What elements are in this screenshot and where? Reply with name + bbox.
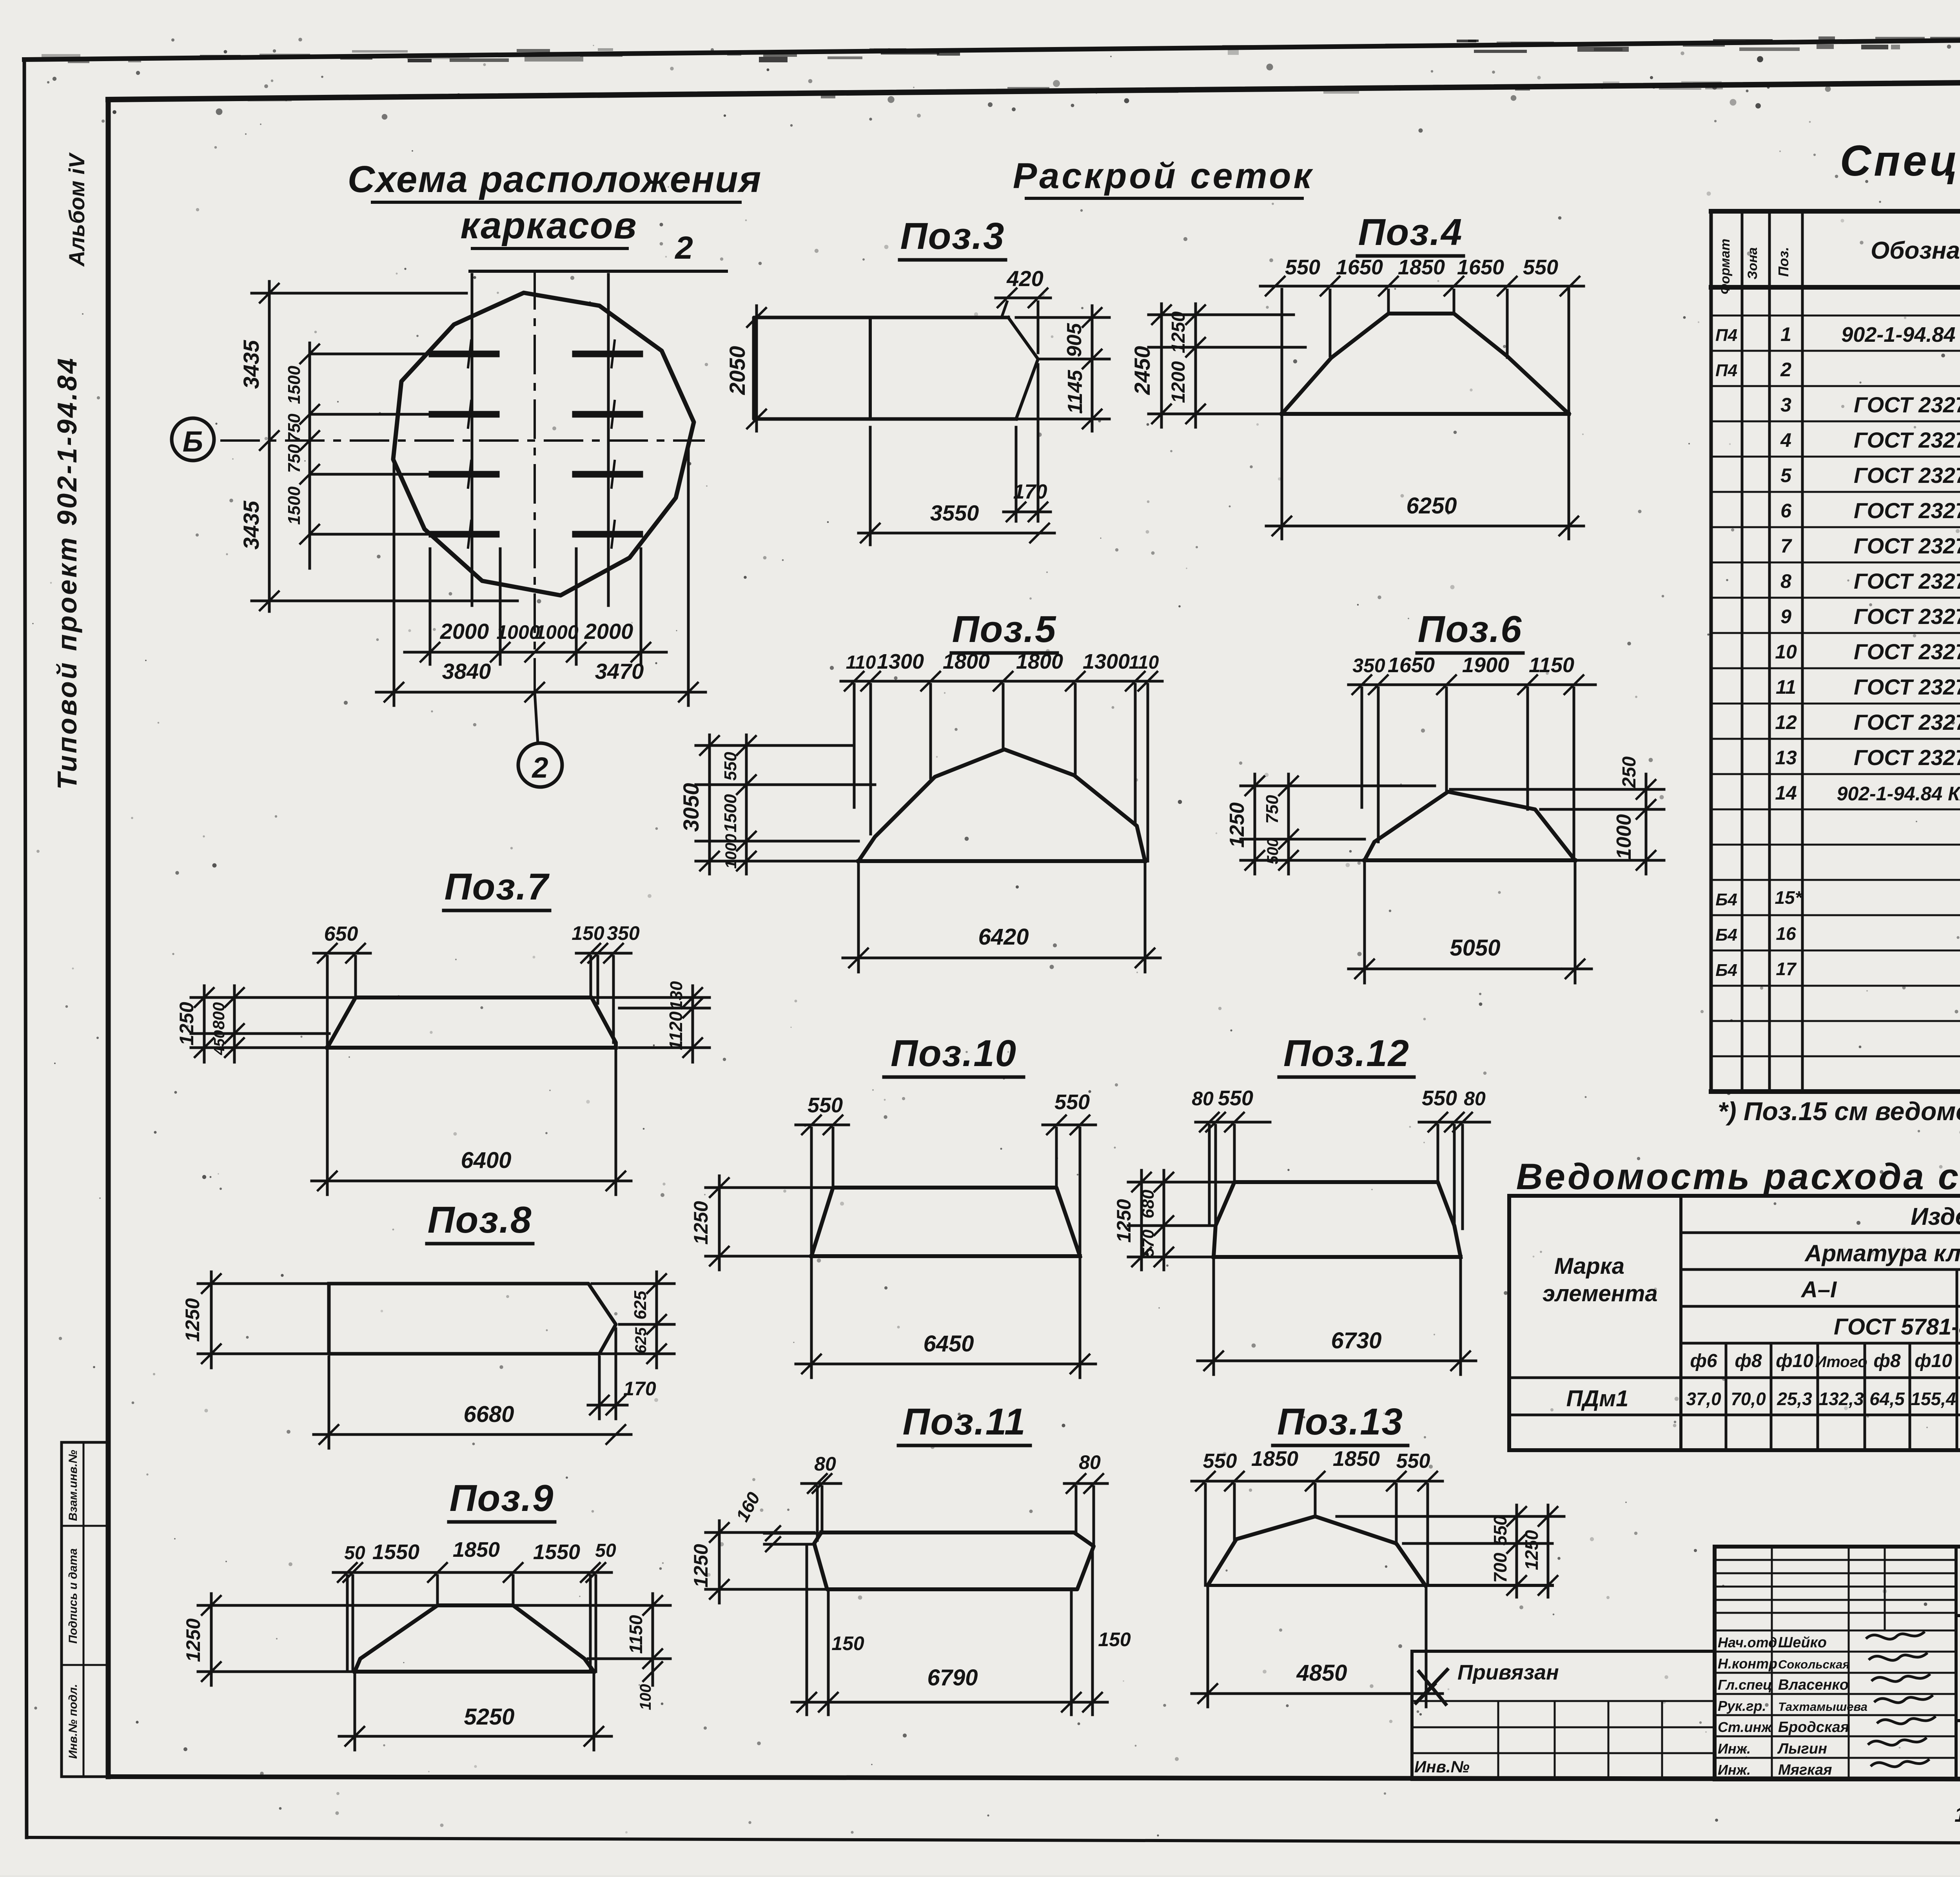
svg-text:10: 10 [1775,641,1797,663]
svg-text:37,0: 37,0 [1686,1389,1721,1409]
svg-text:1250: 1250 [1113,1199,1135,1242]
svg-text:элемента: элемента [1543,1281,1658,1306]
svg-text:Марка: Марка [1554,1253,1624,1279]
svg-text:Поз.13: Поз.13 [1277,1401,1403,1443]
svg-text:9: 9 [1780,606,1791,627]
svg-text:Ст.инж: Ст.инж [1718,1719,1773,1735]
svg-text:1200: 1200 [1168,361,1189,403]
Поз.6 left dims 1250, 750/500 [1254,774,1256,874]
svg-text:3470: 3470 [595,659,644,684]
rebar marks (8) [432,351,496,357]
svg-text:625: 625 [631,1291,650,1320]
Поз.3 dim 170 [1015,427,1018,521]
svg-text:6250: 6250 [1406,493,1457,519]
svg-text:1850: 1850 [453,1538,500,1561]
svg-text:Инж.: Инж. [1718,1741,1751,1757]
svg-text:1250: 1250 [690,1544,712,1587]
svg-text:Поз.10: Поз.10 [891,1032,1017,1074]
svg-text:Поз.6: Поз.6 [1418,608,1523,650]
Поз.3 dim 420 [996,297,1051,299]
Поз.9 plate outline [355,1605,594,1672]
svg-text:1300: 1300 [877,650,924,673]
svg-text:ф8: ф8 [1735,1351,1762,1371]
svg-text:2: 2 [531,751,548,784]
axis 2 top bar [470,270,726,273]
axis bubble 2 (bottom) [518,743,562,787]
Поз.12 top dims 80 550 / 550 80 [1196,1121,1270,1124]
svg-text:550: 550 [1396,1450,1430,1473]
svg-text:1800: 1800 [1016,650,1063,673]
Поз.13 bottom dim 4850 [1192,1692,1443,1695]
svg-text:1150: 1150 [626,1615,646,1654]
svg-text:450: 450 [211,1030,228,1055]
svg-text:550: 550 [1422,1086,1457,1110]
svg-text:1000: 1000 [722,834,740,869]
svg-text:350: 350 [607,922,640,944]
Поз.12 left dims 1250, 680/570 [1140,1170,1143,1270]
svg-text:150: 150 [831,1632,864,1654]
svg-text:Альбом iV: Альбом iV [64,152,89,267]
Поз.6 right dims 250/1000 [1645,774,1648,874]
svg-text:170: 170 [623,1378,656,1400]
scheme bottom dims 3840/3470 [376,691,706,694]
svg-text:8: 8 [1780,570,1791,592]
svg-text:1150: 1150 [1529,653,1574,677]
Поз.5 bottom dim 6420 [843,957,1160,959]
svg-text:Власенко: Власенко [1778,1677,1849,1693]
svg-text:1000: 1000 [1613,814,1635,860]
Поз.6 mesh outline [1365,792,1575,860]
svg-text:5250: 5250 [464,1704,514,1730]
svg-text:Б4: Б4 [1715,961,1737,980]
Поз.8 right dims 625/625 [655,1272,658,1368]
svg-text:Раскрой сеток: Раскрой сеток [1013,156,1314,196]
svg-text:Обозначение: Обозначение [1871,237,1960,264]
svg-text:П4: П4 [1715,326,1737,345]
svg-text:ГОСТ 23279-78: ГОСТ 23279-78 [1854,392,1960,417]
svg-text:12: 12 [1775,711,1797,733]
svg-text:19978-01: 19978-01 [1955,1803,1960,1826]
Поз.13 top dims 550/1850/1850/550 [1192,1480,1443,1483]
svg-text:Рук.гр.: Рук.гр. [1718,1698,1766,1714]
svg-text:1250: 1250 [181,1298,203,1342]
Поз.6 bottom dim 5050 [1348,968,1592,970]
Поз.7 top dims 650 / 150 350 [314,952,370,955]
svg-text:80: 80 [1464,1088,1486,1110]
svg-text:1550: 1550 [533,1540,580,1564]
Поз.8 dim 170 [598,1357,601,1419]
svg-text:155,4: 155,4 [1911,1389,1956,1409]
svg-text:16: 16 [1776,923,1796,944]
Поз.3 dim 2050 (left) [755,306,758,431]
Поз.6 top dims 350/1650/1900/1150 [1348,684,1595,686]
svg-text:570: 570 [1139,1230,1157,1257]
svg-text:905: 905 [1063,323,1086,357]
Поз.8 bottom dim 6680 [314,1433,631,1436]
svg-text:2: 2 [1780,359,1791,381]
svg-text:550: 550 [1490,1515,1510,1545]
Поз.10 plate outline [811,1188,1080,1256]
Поз.9 left dim 1250 [210,1594,213,1685]
svg-text:ф8: ф8 [1873,1351,1900,1371]
svg-text:2050: 2050 [725,346,750,395]
svg-text:7: 7 [1780,535,1792,557]
svg-text:1500: 1500 [285,366,304,404]
svg-text:1250: 1250 [176,1002,198,1045]
svg-text:80: 80 [1192,1088,1214,1110]
svg-text:Поз.4: Поз.4 [1358,211,1463,253]
svg-text:Подпись и дата: Подпись и дата [67,1548,80,1643]
Поз.5 extension verticals [853,684,856,807]
Поз.4 top dims 550/1650/1850/1650/550 [1260,285,1584,288]
svg-text:1000: 1000 [496,621,540,643]
svg-text:750: 750 [285,413,304,443]
svg-text:ГОСТ 23279-78: ГОСТ 23279-78 [1854,710,1960,734]
Поз.3 mesh sheet outline [754,317,1016,419]
svg-text:110: 110 [1129,652,1159,673]
svg-text:Привязан: Привязан [1457,1661,1559,1684]
Поз.9 extension verticals [346,1576,349,1672]
svg-text:ГОСТ 23279-78: ГОСТ 23279-78 [1854,498,1960,523]
Поз.13 right dims 550/700, 1250 [1337,1515,1564,1518]
svg-text:Нач.отд: Нач.отд [1718,1634,1777,1650]
title block frame [1715,1545,1960,1549]
svg-text:Поз.3: Поз.3 [900,215,1005,257]
svg-text:3: 3 [1780,394,1791,416]
svg-text:Инв.№: Инв.№ [1414,1757,1470,1776]
svg-text:902-1-94.84 КЖИ-КР1: 902-1-94.84 КЖИ-КР1 [1841,323,1960,346]
svg-text:700: 700 [1490,1552,1510,1583]
svg-text:2450: 2450 [1130,346,1154,395]
svg-text:Б: Б [183,425,203,458]
svg-text:250: 250 [1619,756,1640,788]
pencil cross mark [1416,1670,1447,1703]
Привязан box [1412,1650,1715,1653]
svg-text:6680: 6680 [463,1402,514,1427]
svg-text:ГОСТ 5781-82: ГОСТ 5781-82 [1834,1314,1960,1340]
Поз.7 bottom dim 6400 [312,1180,631,1182]
Поз.11 bottom dims 150 / 6790 / 150 [806,1546,808,1715]
svg-text:Лыгин: Лыгин [1777,1741,1827,1757]
svg-text:Сокольская: Сокольская [1778,1658,1850,1671]
svg-text:170: 170 [1013,481,1047,503]
svg-text:Поз.5: Поз.5 [952,608,1057,650]
svg-text:6420: 6420 [978,924,1029,950]
svg-text:680: 680 [1138,1190,1158,1219]
svg-text:15*: 15* [1775,887,1802,908]
svg-text:Изделия арматурные: Изделия арматурные [1911,1203,1960,1230]
svg-text:ГОСТ 23279-78: ГОСТ 23279-78 [1854,533,1960,558]
frame verticals through rebar marks [471,274,474,606]
svg-text:550: 550 [1285,256,1320,279]
inner working frame [108,78,1960,100]
svg-text:1550: 1550 [372,1540,419,1564]
svg-text:ПДм1: ПДм1 [1566,1386,1629,1411]
Поз.3 dims 905/1145 (right) [1091,306,1094,431]
svg-text:ГОСТ 23279-78: ГОСТ 23279-78 [1854,745,1960,770]
svg-text:3550: 3550 [930,501,979,525]
svg-text:17: 17 [1776,959,1797,979]
Поз.9 top dims 50/1550/1850/1550/50 [333,1571,612,1574]
svg-text:1145: 1145 [1064,370,1087,414]
svg-text:1250: 1250 [690,1201,712,1244]
Поз.11 top dims 80 / 80 [802,1482,841,1485]
scan smudges along top edge [1577,47,1629,52]
svg-text:Поз.12: Поз.12 [1283,1032,1410,1074]
svg-text:А–I: А–I [1800,1277,1837,1302]
svg-text:5: 5 [1780,464,1792,486]
svg-text:Мягкая: Мягкая [1778,1762,1832,1778]
Поз.13 plate outline (peaked) [1208,1516,1425,1585]
svg-text:1650: 1650 [1457,256,1504,279]
svg-text:Ведомость расхода стали на оди: Ведомость расхода стали на один элемент,… [1516,1156,1960,1197]
svg-text:Поз.: Поз. [1775,247,1791,277]
left margin bottom table (Инв / Подпись / Взам) [62,1441,109,1444]
svg-text:Б4: Б4 [1715,890,1737,909]
svg-text:110: 110 [846,652,876,673]
svg-text:4850: 4850 [1296,1660,1347,1686]
tank shell polygon (12-gon) [393,293,694,595]
Поз.5 mesh outline (arch) [858,749,1145,861]
svg-text:ГОСТ 23279-78: ГОСТ 23279-78 [1854,675,1960,699]
svg-text:420: 420 [1006,266,1043,291]
specification table ПДм1 [1711,209,1960,214]
Поз.10 bottom dim 6450 [796,1363,1096,1366]
svg-text:Шейко: Шейко [1778,1634,1827,1651]
svg-text:650: 650 [324,923,358,945]
svg-text:6790: 6790 [927,1665,978,1690]
svg-text:1850: 1850 [1251,1447,1298,1471]
svg-text:50: 50 [344,1543,365,1563]
svg-text:550: 550 [808,1094,843,1117]
svg-text:6400: 6400 [461,1148,511,1173]
svg-text:Н.контр: Н.контр [1718,1656,1777,1672]
Поз.4 extension verticals [1281,289,1283,539]
svg-text:6: 6 [1780,500,1792,522]
scheme inner dims 1500/750/750/1500 [309,343,311,568]
svg-text:750: 750 [1263,795,1282,824]
svg-text:1900: 1900 [1462,653,1509,677]
outer sheet border [24,34,1960,60]
Поз.8 left dim 1250 [210,1272,213,1368]
svg-text:ГОСТ 23279-78: ГОСТ 23279-78 [1854,604,1960,629]
svg-text:550: 550 [1218,1086,1253,1110]
axis Б (horizontal centreline) [221,439,704,442]
Поз.7 right dims 130/1120 [691,986,694,1062]
Поз.6 extension verticals [1361,688,1363,807]
svg-text:Тахтамышева: Тахтамышева [1778,1700,1867,1714]
svg-text:1850: 1850 [1333,1447,1380,1471]
svg-text:Зона: Зона [1745,247,1760,279]
svg-text:1000: 1000 [535,621,578,643]
svg-text:*) Поз.15 см ведомость деталей: *) Поз.15 см ведомость деталей [1718,1097,1960,1126]
svg-text:Поз.11: Поз.11 [903,1401,1026,1443]
svg-text:5050: 5050 [1450,935,1500,961]
svg-text:2000: 2000 [584,619,633,644]
svg-text:550: 550 [721,752,740,781]
svg-text:350: 350 [1352,655,1385,676]
title block left grid [1715,1559,1956,1561]
svg-text:ГОСТ 23279-78: ГОСТ 23279-78 [1854,463,1960,488]
svg-text:6730: 6730 [1331,1328,1381,1353]
svg-text:6450: 6450 [923,1331,974,1357]
svg-text:13: 13 [1775,747,1797,769]
svg-text:Типовой проект 902-1-94.84: Типовой проект 902-1-94.84 [52,356,82,790]
svg-text:3435: 3435 [239,340,263,389]
Поз.5 left dims 3050, 1000/1500/550 [708,735,711,874]
svg-text:Б4: Б4 [1715,925,1737,945]
svg-text:Взам.инв.№: Взам.инв.№ [67,1450,80,1521]
svg-text:ГОСТ 23279-78: ГОСТ 23279-78 [1854,639,1960,664]
svg-text:64,5: 64,5 [1869,1389,1905,1409]
Поз.9 right dims 1150/100 [652,1594,654,1685]
svg-text:11: 11 [1776,676,1796,698]
svg-text:150: 150 [572,922,604,944]
Поз.3 dim 3550 (bottom) [869,427,872,545]
Поз.9 bottom dim 5250 [339,1735,612,1738]
svg-text:Поз.9: Поз.9 [450,1477,554,1519]
svg-text:1850: 1850 [1398,256,1445,279]
Поз.11 bar outline (bevelled) [814,1532,1094,1589]
svg-text:Поз.8: Поз.8 [428,1199,532,1241]
svg-text:каркасов: каркасов [460,205,637,247]
svg-text:Итого: Итого [1815,1353,1867,1371]
svg-text:1500: 1500 [285,486,304,525]
Поз.10 top dims 550 / 550 [796,1124,849,1126]
svg-text:14: 14 [1775,782,1797,804]
svg-text:2: 2 [674,230,693,266]
svg-text:500: 500 [1264,838,1281,865]
svg-text:902-1-94.84 КЖИ-МН4: 902-1-94.84 КЖИ-МН4 [1837,783,1960,805]
Поз.11 left dim 1250 [718,1521,721,1603]
Поз.4 left dims 2450, 1250/1200 [1160,304,1163,427]
svg-text:Инв.№ подл.: Инв.№ подл. [67,1684,80,1759]
scheme left dim 3435/3435 [268,281,271,611]
svg-text:1650: 1650 [1336,256,1383,279]
svg-text:1800: 1800 [943,650,990,673]
svg-text:ГОСТ 23279-78: ГОСТ 23279-78 [1854,428,1960,452]
Поз.12 bottom dim 6730 [1198,1360,1476,1362]
svg-text:25,3: 25,3 [1777,1389,1812,1409]
svg-text:3840: 3840 [442,659,491,684]
svg-text:132,3: 132,3 [1818,1389,1864,1409]
svg-text:Формат: Формат [1718,239,1733,294]
svg-text:1500: 1500 [721,794,740,832]
svg-text:80: 80 [814,1453,836,1475]
scan speckle [1644,83,1646,85]
svg-text:550: 550 [1203,1450,1237,1473]
svg-text:Арматура класса: Арматура класса [1804,1240,1960,1266]
svg-text:100: 100 [637,1684,654,1710]
Поз.8 bar outline with pointed end [329,1284,616,1354]
svg-text:1650: 1650 [1388,653,1435,677]
svg-text:4: 4 [1780,429,1791,451]
svg-text:70,0: 70,0 [1731,1389,1766,1409]
svg-text:550: 550 [1523,256,1558,279]
svg-text:Гл.спец: Гл.спец [1718,1677,1772,1693]
svg-text:1250: 1250 [1226,802,1249,848]
Поз.12 plate outline [1214,1182,1461,1257]
axis 2 (vertical centreline) [534,271,536,692]
svg-text:1250: 1250 [1168,311,1189,353]
svg-text:130: 130 [667,981,686,1010]
Поз.10 left dim 1250 [718,1176,721,1270]
svg-text:3435: 3435 [239,501,263,549]
scheme bottom dims 2000/1000/1000/2000 [405,651,666,654]
svg-text:800: 800 [209,1002,228,1030]
svg-text:1120: 1120 [666,1011,686,1050]
Поз.13 extension verticals [1204,1484,1207,1585]
svg-text:П4: П4 [1715,361,1737,380]
svg-text:Схема расположения: Схема расположения [348,158,762,200]
svg-text:1250: 1250 [182,1618,204,1662]
svg-text:1250: 1250 [1521,1530,1542,1570]
svg-text:80: 80 [1079,1451,1101,1473]
svg-text:550: 550 [1054,1090,1090,1114]
svg-text:50: 50 [595,1540,616,1561]
Поз.7 plate outline (trapezoid) [327,997,616,1048]
Поз.4 bottom dim 6250 [1266,525,1584,528]
svg-text:ГОСТ 23279-78: ГОСТ 23279-78 [1854,569,1960,593]
svg-text:Бродская: Бродская [1778,1719,1849,1736]
Поз.5 top dims 110/1300/1800/1800/1300/110 [841,680,1162,683]
svg-text:3050: 3050 [679,783,703,832]
steel table [1509,1194,1960,1198]
svg-text:750: 750 [285,444,304,473]
Поз.7 left dims 1250, 800/450 [203,986,206,1062]
svg-text:ф10: ф10 [1776,1351,1813,1371]
svg-text:Поз.7: Поз.7 [445,866,550,908]
axis bubble Б [172,418,214,461]
svg-text:625: 625 [632,1327,650,1353]
svg-text:1: 1 [1780,323,1791,345]
Поз.4 mesh outline (flat-top arch) [1282,314,1569,414]
svg-text:1300: 1300 [1083,650,1130,673]
svg-text:150: 150 [1098,1629,1131,1650]
svg-text:Спецификация ПДм1: Спецификация ПДм1 [1840,137,1960,185]
svg-text:2000: 2000 [440,619,489,644]
svg-text:Инж.: Инж. [1718,1762,1751,1778]
svg-text:ф10: ф10 [1915,1351,1952,1371]
svg-text:ф6: ф6 [1690,1351,1717,1371]
